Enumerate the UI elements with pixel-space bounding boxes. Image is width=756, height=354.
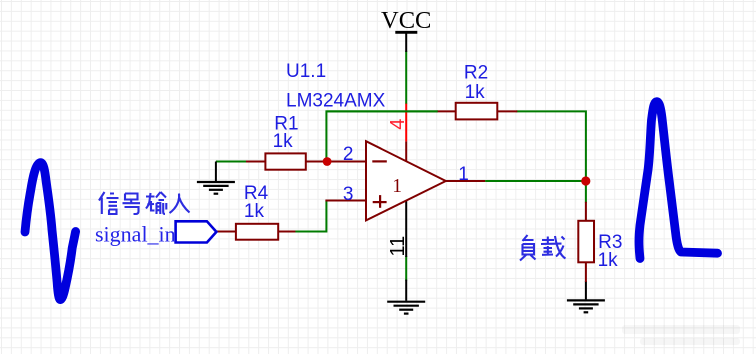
svg-text:1k: 1k: [244, 201, 265, 222]
svg-text:LM324AMX: LM324AMX: [286, 91, 386, 112]
svg-text:2: 2: [343, 144, 354, 165]
svg-text:1k: 1k: [273, 131, 294, 152]
svg-text:1: 1: [392, 176, 402, 197]
svg-text:signal_in: signal_in: [95, 221, 176, 246]
svg-text:4: 4: [387, 119, 409, 130]
svg-text:1: 1: [458, 164, 469, 185]
svg-text:11: 11: [387, 236, 409, 257]
svg-text:U1.1: U1.1: [286, 61, 326, 82]
svg-text:1k: 1k: [465, 82, 486, 103]
svg-text:1k: 1k: [598, 250, 619, 271]
svg-text:3: 3: [343, 184, 354, 205]
svg-text:R2: R2: [464, 63, 488, 84]
svg-text:VCC: VCC: [381, 7, 431, 34]
